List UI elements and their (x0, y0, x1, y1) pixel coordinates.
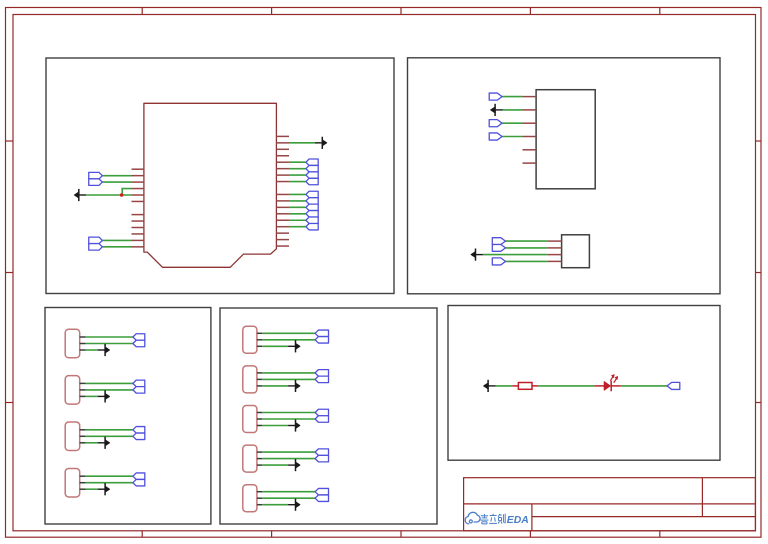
svg-text:EDA: EDA (507, 515, 529, 526)
